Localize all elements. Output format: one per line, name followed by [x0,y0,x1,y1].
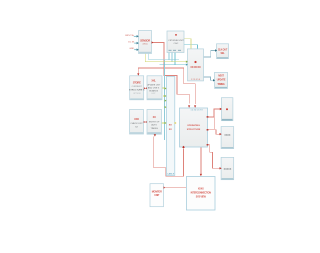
node: O output diamond [164,186,166,188]
svg-text:MONITOR: MONITOR [152,191,162,194]
block U6: status register [213,72,228,88]
node: U1 output diamond [152,41,154,43]
svg-text:INTERCONNECTION: INTERCONNECTION [191,191,212,194]
node: U10 bottom-left diamond [182,146,185,149]
wire: O to P [165,187,186,189]
block L: relay [221,127,234,149]
svg-text:STRUCTURE X: STRUCTURE X [129,90,145,92]
wire: I to bus stub [162,122,166,124]
svg-text:STRUCTURE: STRUCTURE [187,129,201,131]
wire: teal line T2 into U4 [159,53,186,65]
svg-text:OPTION: OPTION [133,93,141,95]
node: U5-U7 link diamonds [144,87,147,89]
node: U10 top arrows [188,105,190,107]
node: green arrows on bus [165,87,167,89]
svg-text:XXXX: XXXX [198,188,204,191]
block U9: detect unit [147,110,162,135]
wire: yellow from U1 bottom [145,54,186,62]
node: arrow into M [220,167,222,169]
wire: U10 to L [208,130,221,134]
node: U10 bottom arrow to P [200,174,202,176]
svg-text:(IN1): (IN1) [143,44,148,46]
svg-text:GND: GND [129,48,134,50]
svg-text:OSC: OSC [174,43,179,45]
svg-text:XX XXX XX: XX XXX XX [190,67,201,69]
node: arrow into K [220,108,222,110]
svg-text:DC IN: DC IN [128,42,134,44]
block P: interconnection view [186,177,215,211]
svg-text:XXL: XXL [151,79,156,83]
svg-text:CRYSTAL UNIT: CRYSTAL UNIT [168,39,184,42]
wire: yellow from U2 right [184,39,191,49]
svg-text:XXXX: XXXX [224,135,231,137]
svg-text:INPUT A: INPUT A [125,34,134,37]
block U7: update unit [147,76,162,100]
svg-text:CABLE: CABLE [167,173,175,176]
svg-text:1 2 3 4 5 6: 1 2 3 4 5 6 [191,79,200,81]
wire: U10 bottom to P [200,147,202,175]
svg-text:SYS VIEW: SYS VIEW [196,195,207,198]
node: U8-U9 link diamonds [144,121,147,123]
wire: I bottom to U10 bottom-left (under bus) [154,137,184,177]
node: U10 right pins [207,116,209,117]
svg-text:UNIT: UNIT [154,194,160,197]
block U1: sensor input [139,31,152,54]
svg-text:XX: XX [153,115,157,119]
wire: bus stub 2 [163,95,166,97]
wire: module U5 to controller U10 (red staircase 2) [138,68,195,104]
block U8: scan unit [130,110,144,135]
wire: teal from U2 right into U4 top [184,45,198,49]
wire: teal bus line T1 [148,53,178,141]
svg-text:XXX: XXX [134,117,139,121]
svg-text:NEXT: NEXT [218,74,224,77]
node: arrow into U5 top [137,73,139,75]
block K: indicator [221,98,233,121]
bus N: vertical cable [166,77,174,176]
block U2: crystal module [167,31,184,53]
block U4: oscillator core [186,49,204,81]
block M: output driver [221,157,234,179]
block O: monitor [150,184,164,207]
input label IN-B [128,42,139,45]
svg-text:STORE: STORE [133,80,141,84]
svg-text:AUTO: AUTO [151,124,157,127]
node: arrow into L [220,133,222,135]
svg-text:TIMING: TIMING [151,128,159,130]
svg-text:SENSOR: SENSOR [140,38,150,42]
svg-text:XXXXX: XXXXX [224,169,232,171]
svg-text:UPDATE: UPDATE [217,79,226,82]
wire: U10 to K [208,109,221,129]
svg-text:CURRENT: CURRENT [132,86,143,88]
block U3: clock out [215,44,229,59]
input label IN-C [129,48,138,51]
svg-text:CLK OUT: CLK OUT [218,48,228,51]
wire: U10 to M [208,145,221,169]
wire: U4 to E [204,77,214,80]
svg-text:UPDATE LIST: UPDATE LIST [147,83,161,86]
svg-text:1 2 3 4 5 6 7 8: 1 2 3 4 5 6 7 8 [190,110,202,112]
block U5: store unit [129,76,145,100]
svg-text:TIMING: TIMING [217,83,225,86]
node: U9 bottom output arrow [154,134,156,136]
wire: G to bus stub [162,87,166,89]
input label IN-A [125,34,139,38]
svg-text:CHECK LIST: CHECK LIST [130,123,143,125]
block U10: operating structure (main controller) [180,108,208,147]
wire: sensor U1 output to controller U10 (red staircase) [152,43,190,104]
svg-text:OPERATING: OPERATING [187,124,200,127]
svg-text:AND LIVE X: AND LIVE X [148,86,160,89]
wire: U4 to C (display) [204,51,216,58]
svg-text:ENTRY OF: ENTRY OF [149,121,160,123]
